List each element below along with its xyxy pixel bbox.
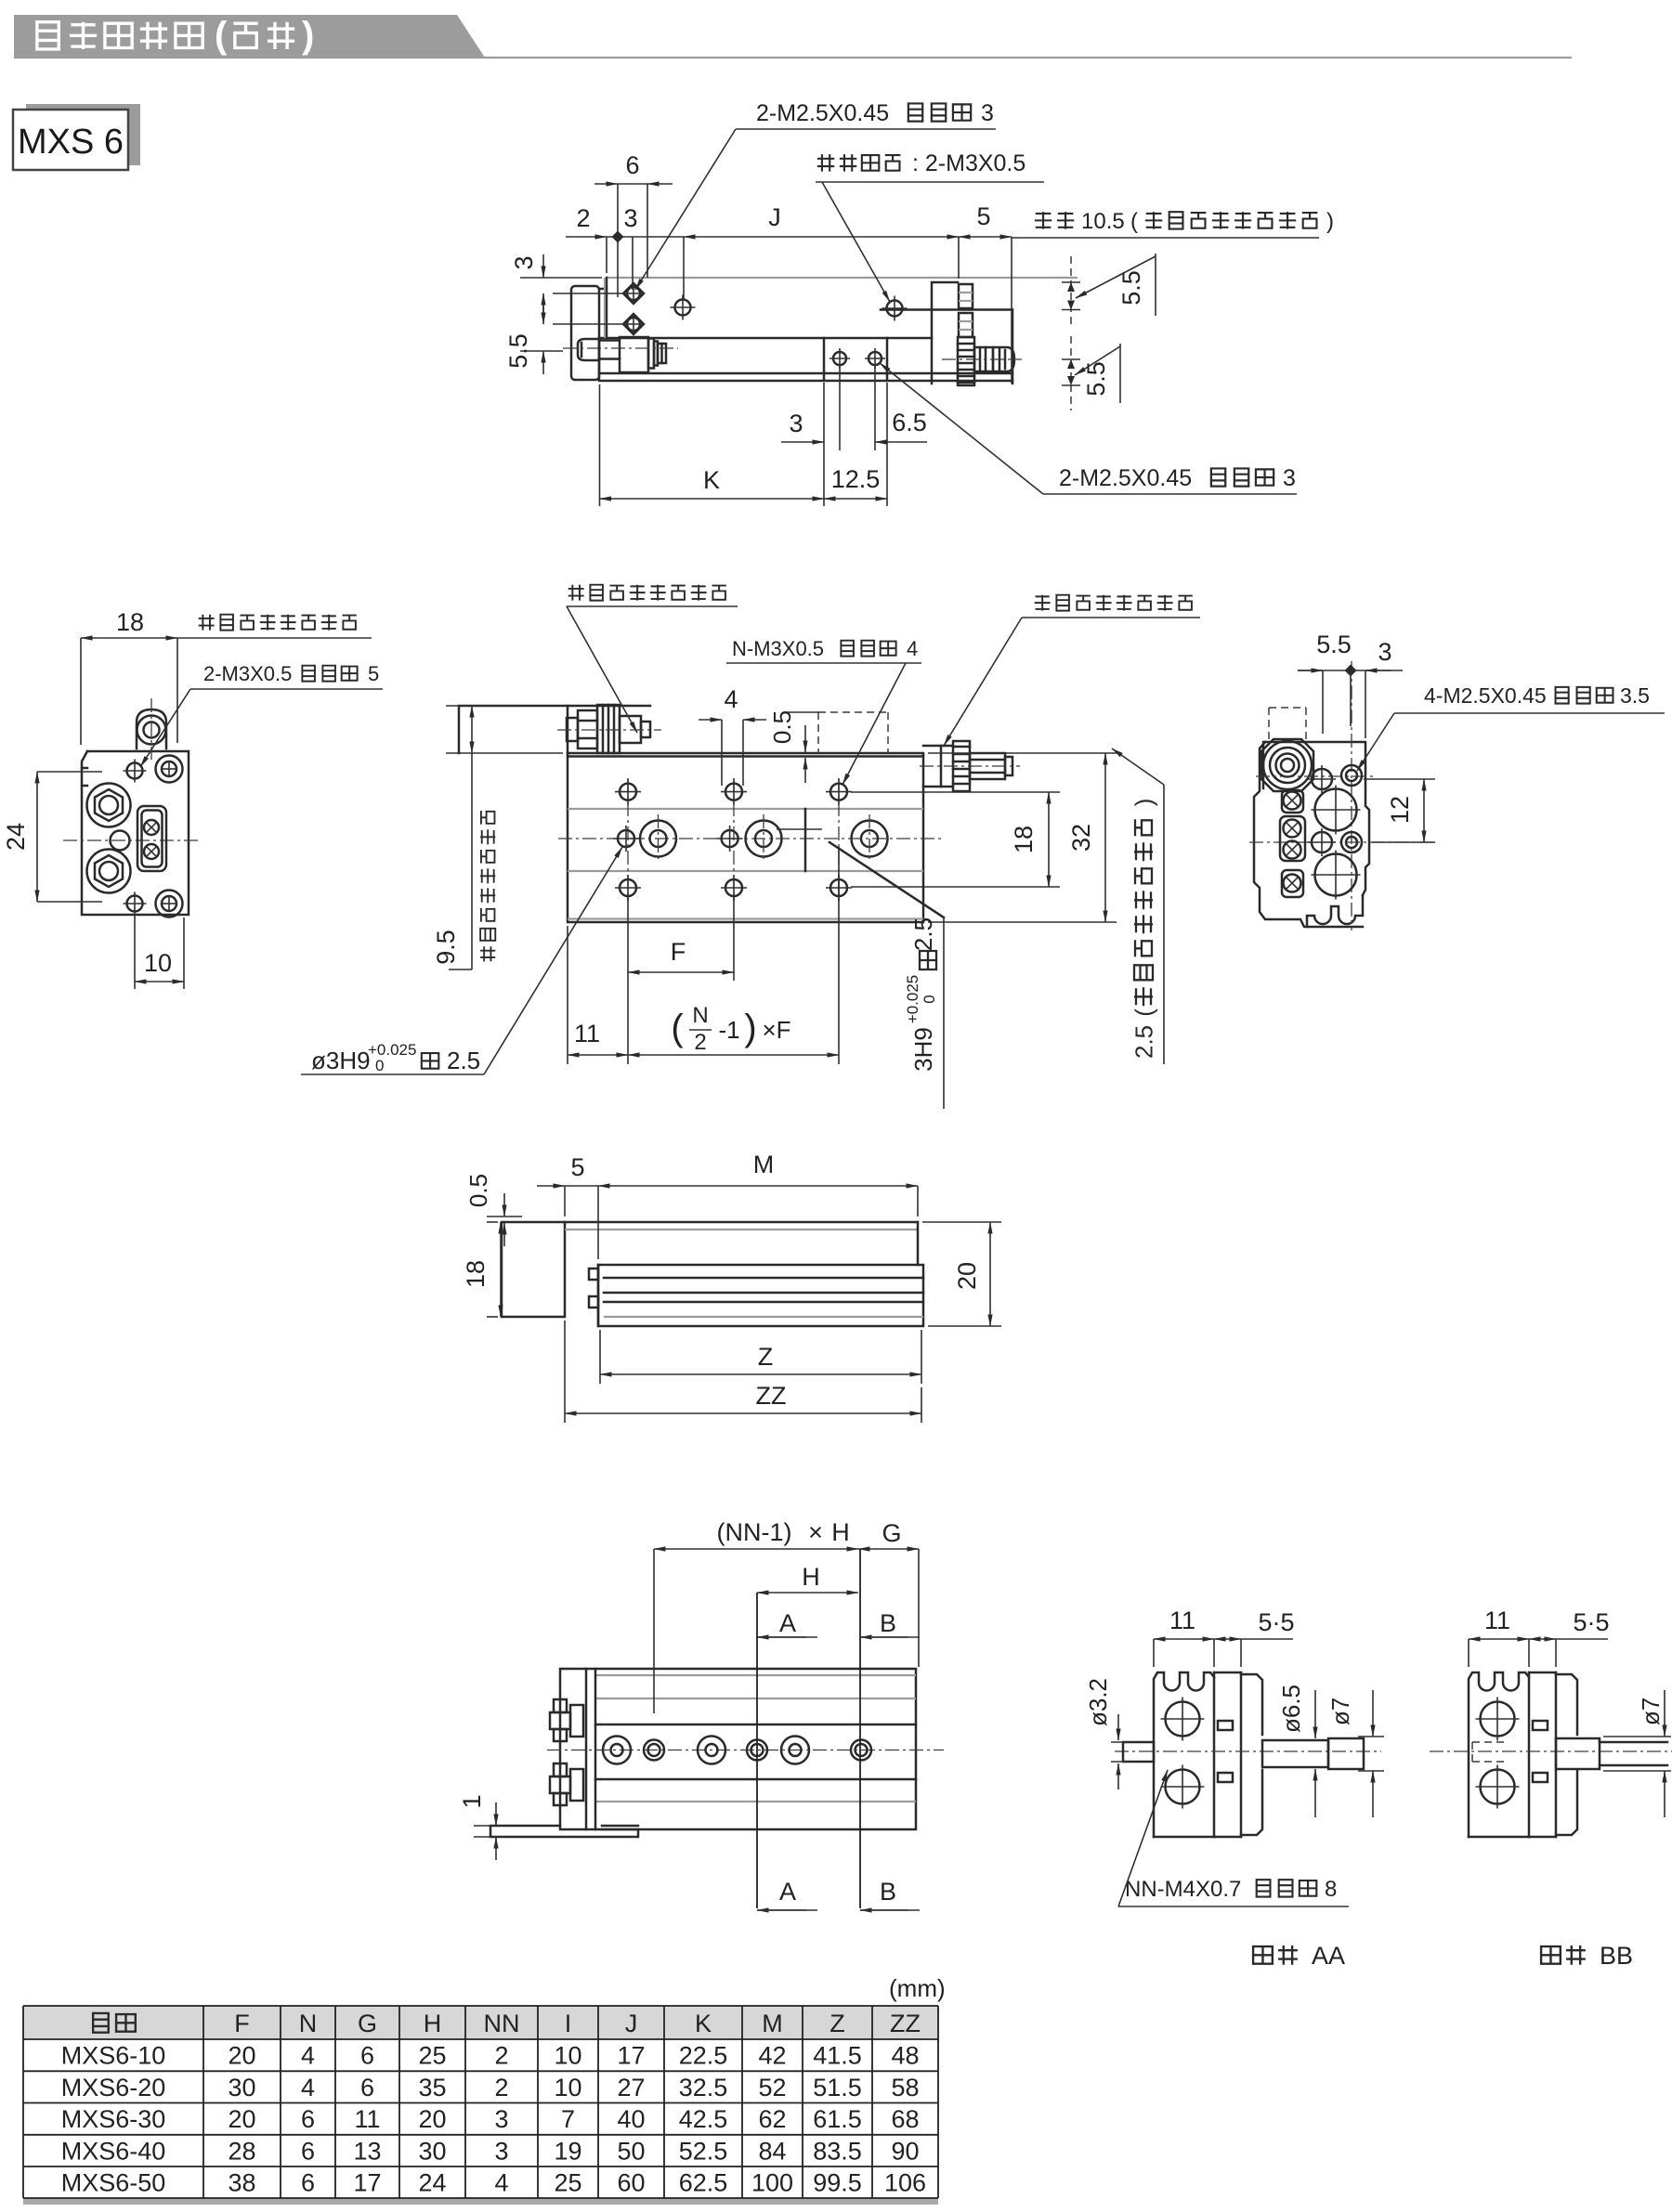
- view1 hole counter: [675, 300, 691, 316]
- svg-text:51.5: 51.5: [813, 2074, 862, 2101]
- section BB left block with fork top: [1469, 1672, 1529, 1837]
- svg-text:ZZ: ZZ: [756, 1382, 787, 1410]
- svg-text:BB: BB: [1600, 1942, 1633, 1970]
- section AA right block: [1241, 1674, 1262, 1735]
- v3 body top strip: [565, 1221, 918, 1224]
- label max 10.5 rear stroke adjuster: [1035, 212, 1074, 228]
- view1 block holes: [833, 352, 846, 365]
- view1 rear stroke adjuster bracket: [932, 282, 958, 384]
- view1 front stroke adjuster screw: [578, 339, 599, 360]
- svg-text:2.5: 2.5: [447, 1047, 480, 1074]
- v3 rail left tabs: [589, 1269, 598, 1280]
- svg-text:MXS 6: MXS 6: [18, 123, 124, 162]
- v2l guide rod upper: [87, 784, 131, 827]
- svg-text:N: N: [692, 1003, 708, 1028]
- svg-text:84: 84: [758, 2137, 786, 2165]
- svg-text:2.5: 2.5: [909, 917, 937, 951]
- svg-text:3: 3: [789, 410, 803, 437]
- svg-text:32: 32: [1067, 824, 1095, 852]
- svg-text:F: F: [234, 2010, 250, 2037]
- view1 hole M2.5 top2: [627, 318, 640, 331]
- table grid: [23, 2005, 938, 2007]
- svg-text:): ): [302, 15, 314, 56]
- svg-text:1: 1: [458, 1794, 486, 1808]
- svg-text:5: 5: [570, 1153, 584, 1181]
- svg-text:106: 106: [884, 2169, 926, 2197]
- svg-text:52: 52: [758, 2074, 786, 2101]
- svg-text:18: 18: [462, 1260, 490, 1288]
- svg-text:K: K: [703, 466, 720, 494]
- svg-text:MXS6-30: MXS6-30: [61, 2105, 166, 2133]
- svg-text:13: 13: [353, 2137, 381, 2165]
- svg-text:27: 27: [617, 2074, 645, 2101]
- svg-text:2-M3X0.5: 2-M3X0.5: [203, 662, 292, 685]
- svg-text:0: 0: [921, 995, 938, 1003]
- v4 left bracket: [585, 1669, 588, 1829]
- svg-text:3: 3: [623, 204, 637, 232]
- svg-text:G: G: [882, 1519, 901, 1547]
- v2l connector block: [137, 806, 166, 871]
- svg-text:M: M: [753, 1151, 775, 1178]
- v2r middle holes: [1312, 832, 1332, 852]
- v2l hole top-left: [127, 763, 143, 779]
- svg-text:J: J: [625, 2010, 638, 2037]
- svg-text:NN: NN: [484, 2010, 520, 2037]
- table header row: [93, 2013, 136, 2033]
- svg-text:20: 20: [228, 2042, 255, 2070]
- svg-text:30: 30: [228, 2074, 255, 2101]
- svg-text:×: ×: [808, 1518, 823, 1546]
- v2l body outline: [82, 751, 189, 915]
- svg-text:58: 58: [891, 2074, 919, 2101]
- v3 left bracket: [502, 1222, 565, 1317]
- view1 rear adjuster screw: [974, 347, 993, 371]
- v2c middle row holes: [618, 830, 634, 847]
- svg-text:5: 5: [976, 202, 990, 230]
- svg-text:AA: AA: [1312, 1942, 1345, 1970]
- svg-text:MXS6-10: MXS6-10: [61, 2042, 166, 2070]
- section BB caption: [1541, 1945, 1586, 1965]
- svg-text:7: 7: [561, 2105, 575, 2133]
- svg-text:100: 100: [751, 2169, 793, 2197]
- svg-text:5·5: 5·5: [1573, 1608, 1609, 1636]
- v4 center line: [547, 1750, 944, 1751]
- svg-text:Z: Z: [758, 1343, 774, 1371]
- svg-text:62: 62: [758, 2105, 786, 2133]
- svg-text:25: 25: [554, 2169, 581, 2197]
- section AA rod right: [1262, 1740, 1328, 1767]
- svg-text:42: 42: [758, 2042, 786, 2070]
- svg-text:K: K: [695, 2010, 712, 2037]
- svg-text:2: 2: [494, 2042, 508, 2070]
- v4 left screws group2: [554, 1763, 567, 1776]
- svg-text:42.5: 42.5: [679, 2105, 728, 2133]
- v2c bottom row holes: [620, 879, 636, 896]
- svg-text:A: A: [779, 1609, 796, 1637]
- view1 port hole 2-M3X0.5: [887, 301, 903, 317]
- svg-text:2: 2: [1130, 1046, 1157, 1059]
- table header background: [23, 2006, 938, 2039]
- view1 slide table top edge: [607, 277, 1078, 279]
- section AA rod left stub: [1123, 1742, 1154, 1762]
- section AA caption: [1253, 1945, 1298, 1965]
- svg-text:2: 2: [494, 2074, 508, 2101]
- v2c front adjuster screw plan: [567, 718, 578, 741]
- svg-text:3: 3: [981, 100, 994, 126]
- svg-text:25: 25: [418, 2042, 446, 2070]
- svg-text:12: 12: [1386, 796, 1414, 824]
- svg-text:5.5: 5.5: [1082, 361, 1110, 397]
- svg-text:B: B: [880, 1878, 896, 1906]
- v2c label front stroke adjuster: [568, 585, 726, 601]
- svg-text:10: 10: [554, 2074, 581, 2101]
- v2r small holes top: [1312, 769, 1332, 789]
- svg-text:40: 40: [617, 2105, 645, 2133]
- v2l label front stroke adjuster: [199, 615, 357, 631]
- label port 2-M3X0.5: [817, 154, 901, 171]
- section BB guide rod circles: [1481, 1702, 1515, 1737]
- v2l bolt top-right: [156, 756, 183, 783]
- svg-text:.: .: [1130, 1038, 1157, 1045]
- view1 front adjuster center line: [563, 347, 678, 349]
- view1 rear adjuster threaded rod: [959, 284, 973, 308]
- svg-text:61.5: 61.5: [813, 2105, 862, 2133]
- svg-text:G: G: [358, 2010, 377, 2037]
- svg-text:6: 6: [360, 2042, 374, 2070]
- svg-text:11: 11: [1484, 1607, 1510, 1634]
- svg-text:B: B: [880, 1609, 896, 1637]
- v2r boss circles: [1263, 741, 1312, 789]
- v2r body outline: [1265, 742, 1369, 895]
- section AA left block with fork top: [1154, 1672, 1214, 1837]
- svg-text:N-M3X0.5: N-M3X0.5: [732, 637, 824, 660]
- svg-text:5.5: 5.5: [1316, 631, 1352, 658]
- svg-text:8: 8: [1325, 1877, 1337, 1902]
- svg-text:): ): [1130, 799, 1157, 807]
- svg-text:N: N: [299, 2010, 318, 2037]
- svg-text:3H9: 3H9: [909, 1027, 937, 1072]
- svg-text:83.5: 83.5: [813, 2137, 862, 2165]
- section BB center line: [1430, 1750, 1672, 1752]
- svg-text:17: 17: [617, 2042, 645, 2070]
- v4 body outline: [560, 1669, 916, 1829]
- svg-text:24: 24: [2, 823, 30, 851]
- svg-text:F: F: [671, 938, 686, 966]
- v2c rotated label 3H9 depth 2.5: [829, 842, 944, 917]
- svg-text:2-M2.5X0.45: 2-M2.5X0.45: [756, 100, 889, 126]
- svg-text:3: 3: [1283, 465, 1296, 491]
- svg-text:-1: -1: [718, 1016, 739, 1044]
- v2c rear adjuster plan: [923, 745, 953, 748]
- view1 slide table body: [606, 278, 608, 338]
- v2r bores: [1315, 789, 1357, 831]
- svg-text:6.5: 6.5: [892, 409, 927, 436]
- svg-text:52.5: 52.5: [679, 2137, 728, 2165]
- svg-text:20: 20: [228, 2105, 255, 2133]
- svg-text:H: H: [424, 2010, 442, 2037]
- svg-text:0.5: 0.5: [464, 1174, 492, 1207]
- v4 holes: [603, 1737, 631, 1764]
- svg-text:MXS6-20: MXS6-20: [61, 2074, 166, 2101]
- title banner 外形尺寸图(毫米): [14, 15, 485, 58]
- svg-text:ZZ: ZZ: [890, 2010, 921, 2037]
- v2l top hex nut (front adjuster): [137, 709, 166, 748]
- svg-text:3: 3: [494, 2137, 508, 2165]
- svg-text:19: 19: [554, 2137, 581, 2165]
- svg-text:H: H: [831, 1518, 850, 1546]
- svg-text:4-M2.5X0.45: 4-M2.5X0.45: [1424, 683, 1547, 708]
- svg-text:17: 17: [353, 2169, 381, 2197]
- svg-text:24: 24: [418, 2169, 446, 2197]
- section BB rod right: [1556, 1738, 1600, 1769]
- svg-text:20: 20: [953, 1262, 981, 1290]
- svg-text:0: 0: [375, 1057, 384, 1074]
- svg-text:2-M2.5X0.45: 2-M2.5X0.45: [1059, 465, 1192, 491]
- v2r phantom rect: [1269, 707, 1306, 709]
- svg-text:ø7: ø7: [1637, 1698, 1665, 1725]
- svg-text:4: 4: [494, 2169, 508, 2197]
- section BB rail: [1529, 1672, 1556, 1674]
- svg-text:H: H: [802, 1563, 820, 1591]
- svg-text:62.5: 62.5: [679, 2169, 728, 2197]
- svg-text:): ): [1326, 209, 1334, 234]
- v3 rail block: [598, 1265, 923, 1326]
- view1 hole M2.5 top1: [627, 287, 640, 300]
- v2c body outline: [568, 753, 923, 922]
- model label MXS 6: [26, 104, 140, 165]
- v2l piston rod circle: [111, 831, 130, 851]
- svg-text:ø7: ø7: [1326, 1698, 1354, 1725]
- svg-text:4: 4: [907, 637, 918, 660]
- svg-text:5: 5: [368, 662, 379, 685]
- v2l hole bottom-left: [127, 896, 143, 912]
- view1 rear adjuster knurled wheel: [958, 337, 974, 385]
- svg-text:35: 35: [418, 2074, 446, 2101]
- svg-text:: 2-M3X0.5: : 2-M3X0.5: [912, 150, 1025, 176]
- svg-text:MXS6-50: MXS6-50: [61, 2169, 166, 2197]
- view1 cylinder body: [599, 338, 1012, 381]
- svg-text:60: 60: [617, 2169, 645, 2197]
- section BB hidden rod in left block: [1472, 1741, 1507, 1743]
- svg-text:2: 2: [694, 1030, 706, 1055]
- svg-text:12.5: 12.5: [831, 465, 881, 493]
- view1 hole chamfer diamonds: [623, 283, 644, 304]
- svg-text:): ): [744, 1008, 756, 1048]
- svg-text:5.5: 5.5: [1117, 270, 1145, 306]
- svg-text:28: 28: [228, 2137, 255, 2165]
- leader to top hole: [635, 129, 736, 290]
- svg-text:22.5: 22.5: [679, 2042, 728, 2070]
- svg-text:2: 2: [576, 204, 590, 232]
- v2c slot feature: [804, 809, 807, 871]
- svg-text:4: 4: [301, 2074, 315, 2101]
- svg-text:3: 3: [510, 255, 538, 269]
- svg-text:6: 6: [301, 2169, 315, 2197]
- svg-text:0.5: 0.5: [768, 710, 796, 744]
- svg-text:5: 5: [1130, 1025, 1157, 1038]
- leader to port hole: [822, 182, 890, 302]
- svg-text:11: 11: [1169, 1607, 1195, 1634]
- svg-text:3: 3: [494, 2105, 508, 2133]
- svg-text:(: (: [215, 15, 228, 56]
- svg-text:3.5: 3.5: [1620, 683, 1650, 708]
- v2c top row holes N-M3X0.5: [620, 784, 636, 800]
- svg-text:6: 6: [625, 151, 639, 179]
- dim 5.5 right upper: [1070, 256, 1072, 327]
- svg-text:(: (: [671, 1008, 684, 1048]
- svg-text:(NN-1): (NN-1): [717, 1518, 792, 1546]
- v2c label rear stroke adjuster: [1035, 595, 1193, 611]
- svg-text:11: 11: [574, 1020, 600, 1047]
- v2r boss octagon: [1261, 739, 1313, 791]
- svg-text:M: M: [762, 2010, 783, 2037]
- svg-text:6: 6: [360, 2074, 374, 2101]
- dim 5.5 right lower: [1070, 336, 1072, 410]
- section AA guide rod circles: [1166, 1702, 1200, 1737]
- svg-text:ø3.2: ø3.2: [1084, 1678, 1112, 1726]
- svg-text:ø6.5: ø6.5: [1277, 1685, 1305, 1733]
- section AA rail: [1214, 1672, 1241, 1674]
- section BB right block: [1556, 1674, 1577, 1735]
- view1 left bracket: [571, 286, 599, 380]
- svg-text:18: 18: [116, 608, 144, 636]
- v4 left screws group1: [554, 1699, 567, 1712]
- svg-text:(mm): (mm): [889, 1974, 946, 2002]
- v2c phantom table position: [818, 711, 888, 713]
- v2c front adjuster bracket plan: [459, 706, 650, 753]
- svg-text:18: 18: [1010, 826, 1038, 853]
- svg-text:41.5: 41.5: [813, 2042, 862, 2070]
- v2r port screw blocks: [1282, 790, 1303, 813]
- v4 L foot: [490, 1826, 638, 1837]
- v2r bottom fork: [1307, 895, 1363, 927]
- svg-text:A: A: [779, 1878, 796, 1906]
- svg-text:32.5: 32.5: [679, 2074, 728, 2101]
- svg-text:(: (: [1130, 1008, 1157, 1017]
- svg-text:48: 48: [891, 2042, 919, 2070]
- svg-text:4: 4: [724, 685, 738, 713]
- svg-text:30: 30: [418, 2137, 446, 2165]
- svg-text:×F: ×F: [762, 1016, 790, 1044]
- v2c rotated label front adjuster: [480, 811, 495, 961]
- v2c center line horizontal: [558, 838, 945, 839]
- v4 section cut lines: [756, 1593, 758, 1908]
- svg-text:3: 3: [1378, 638, 1391, 666]
- svg-text:NN-M4X0.7: NN-M4X0.7: [1125, 1877, 1241, 1902]
- svg-text:ø3H9: ø3H9: [311, 1047, 371, 1074]
- svg-text:11: 11: [354, 2105, 380, 2133]
- v2l bolt bottom-right: [156, 891, 183, 917]
- svg-text:99.5: 99.5: [813, 2169, 862, 2197]
- svg-text:6: 6: [301, 2105, 315, 2133]
- svg-text:Z: Z: [829, 2010, 845, 2037]
- view1 sensor rail block: [823, 338, 826, 381]
- svg-text:68: 68: [891, 2105, 919, 2133]
- svg-text:10: 10: [144, 949, 172, 977]
- v2r center lines: [1249, 841, 1435, 843]
- svg-text:38: 38: [228, 2169, 255, 2197]
- v2c hole columns center lines: [627, 778, 629, 901]
- svg-text:6: 6: [301, 2137, 315, 2165]
- svg-text:I: I: [565, 2010, 572, 2037]
- svg-text:90: 90: [891, 2137, 919, 2165]
- v2l guide rod lower: [87, 850, 131, 893]
- v2l center lines: [150, 698, 152, 760]
- section AA center line: [1115, 1750, 1381, 1752]
- svg-text:50: 50: [617, 2137, 645, 2165]
- view1 rear adjuster center line: [942, 358, 1022, 360]
- svg-text:J: J: [768, 203, 781, 231]
- svg-text:4: 4: [301, 2042, 315, 2070]
- svg-text:+0.025: +0.025: [904, 975, 921, 1023]
- svg-text:9.5: 9.5: [432, 930, 460, 965]
- svg-text:5·5: 5·5: [1258, 1608, 1294, 1636]
- table bottom shadow: [23, 2198, 938, 2205]
- svg-text:20: 20: [418, 2105, 446, 2133]
- svg-text:MXS6-40: MXS6-40: [61, 2137, 166, 2165]
- svg-text:10: 10: [554, 2042, 581, 2070]
- svg-text:(: (: [1130, 209, 1138, 234]
- svg-text:10.5: 10.5: [1081, 209, 1125, 234]
- v2c label 2.5 rear adjuster rotated: [1112, 748, 1164, 785]
- v2c dim 9.5 front adjuster: [446, 705, 520, 707]
